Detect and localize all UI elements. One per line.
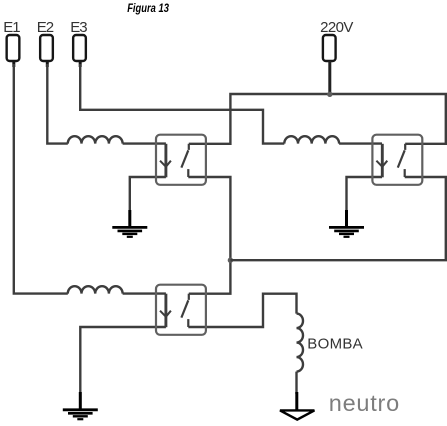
neutro arrow xyxy=(280,410,314,419)
wire K3 coil to ground G3 xyxy=(80,327,166,394)
relay K3 box xyxy=(156,285,206,335)
svg-text:Figura 13: Figura 13 xyxy=(127,2,169,15)
lead E2 xyxy=(46,61,49,67)
svg-text:BOMBA: BOMBA xyxy=(307,336,363,353)
svg-text:neutro: neutro xyxy=(329,390,400,416)
junction dot node N xyxy=(228,258,233,263)
relay K1 NO contact xyxy=(181,144,188,177)
wire K3 contact out to coil BOMBA xyxy=(188,294,296,327)
wire L2 to relay K2 coil xyxy=(339,142,382,144)
wire K1 contact out to node N and K3 contact in xyxy=(188,177,230,294)
lead neutro xyxy=(295,392,298,410)
inductor L2 xyxy=(284,136,339,143)
terminal E3 xyxy=(73,35,86,61)
ground G1 xyxy=(112,210,147,237)
lead 220V xyxy=(328,61,331,94)
junction dot 220V rail xyxy=(327,92,332,97)
wire BOMBA to neutro xyxy=(295,372,297,394)
relay K1 box xyxy=(156,135,206,185)
inductor L3 xyxy=(68,286,123,293)
svg-text:E1: E1 xyxy=(3,19,20,36)
coil BOMBA xyxy=(297,314,304,372)
relay K2 plunger xyxy=(376,144,387,178)
terminal 220V xyxy=(323,35,336,61)
wire E2 to inductor L1 xyxy=(47,64,68,144)
wire E1 to inductor L3 xyxy=(14,64,68,294)
wire K1 coil to ground G1 xyxy=(130,177,166,212)
svg-text:E2: E2 xyxy=(37,19,54,36)
wire node N to K2 contact out xyxy=(230,177,445,260)
wire E3 to inductor L2 xyxy=(80,64,284,144)
wire L3 to relay K3 coil xyxy=(123,292,166,294)
lead E3 xyxy=(79,61,82,67)
svg-text:E3: E3 xyxy=(70,19,87,36)
lead E1 xyxy=(12,61,15,67)
svg-text:220V: 220V xyxy=(320,19,353,36)
relay K1 plunger xyxy=(160,144,171,178)
ground G2 xyxy=(329,210,364,237)
relay K3 plunger xyxy=(160,294,171,328)
relay K3 NO contact xyxy=(181,294,188,327)
relay K2 NO contact xyxy=(398,144,405,177)
wire L1 to relay K1 coil xyxy=(123,142,166,144)
terminal E2 xyxy=(40,35,53,61)
ground G3 xyxy=(63,392,98,419)
inductor L1 xyxy=(68,136,123,143)
wire 220V rail xyxy=(189,94,446,144)
relay K2 box xyxy=(372,135,422,185)
terminal E1 xyxy=(7,35,20,61)
wire K2 coil to ground G2 xyxy=(347,177,383,212)
